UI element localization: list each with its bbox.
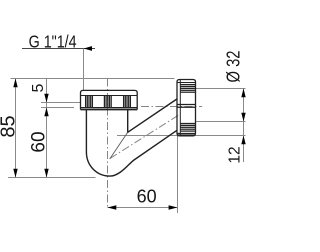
- svg-text:60: 60: [137, 187, 157, 207]
- svg-text:Ø 32: Ø 32: [224, 51, 244, 83]
- svg-text:G 1"1/4: G 1"1/4: [29, 31, 77, 51]
- svg-text:60: 60: [29, 131, 50, 152]
- svg-text:12: 12: [227, 146, 244, 163]
- svg-text:5: 5: [30, 83, 47, 92]
- svg-text:85: 85: [0, 115, 20, 137]
